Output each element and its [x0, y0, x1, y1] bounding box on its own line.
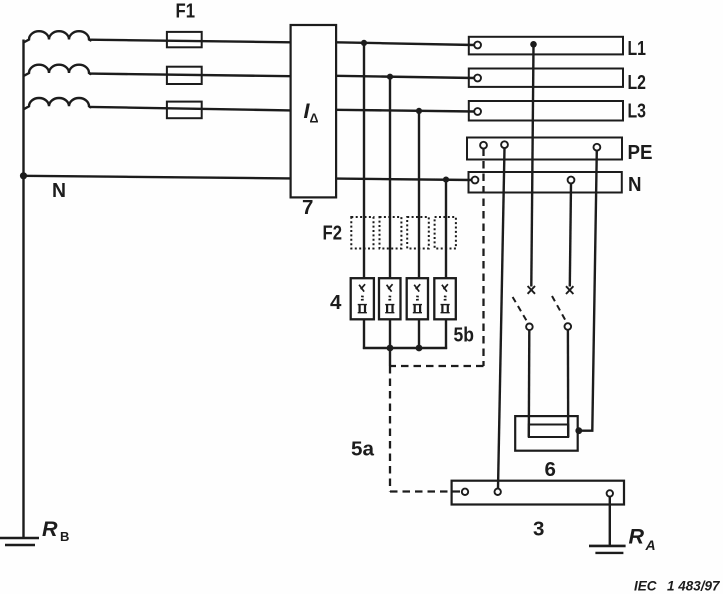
- svg-text:IEC: IEC: [634, 579, 657, 594]
- svg-text:5a: 5a: [351, 438, 375, 461]
- svg-text:Δ: Δ: [310, 112, 319, 126]
- svg-text:A: A: [645, 537, 656, 553]
- svg-text:B: B: [60, 529, 69, 544]
- svg-text:L3: L3: [628, 100, 647, 123]
- svg-text:6: 6: [545, 458, 556, 481]
- svg-text:4: 4: [330, 291, 342, 314]
- svg-text:7: 7: [302, 196, 313, 219]
- svg-text:L2: L2: [628, 71, 647, 94]
- svg-text:L1: L1: [628, 37, 647, 60]
- svg-text:PE: PE: [628, 141, 653, 164]
- svg-text:R: R: [629, 525, 645, 549]
- svg-text:F2: F2: [323, 222, 343, 245]
- svg-text:1 483/97: 1 483/97: [667, 579, 721, 594]
- svg-text:R: R: [42, 517, 58, 541]
- svg-text:F1: F1: [176, 0, 196, 23]
- svg-text:5b: 5b: [454, 324, 475, 347]
- svg-text:3: 3: [533, 518, 544, 541]
- svg-text:N: N: [628, 173, 642, 196]
- svg-text:N: N: [52, 179, 66, 202]
